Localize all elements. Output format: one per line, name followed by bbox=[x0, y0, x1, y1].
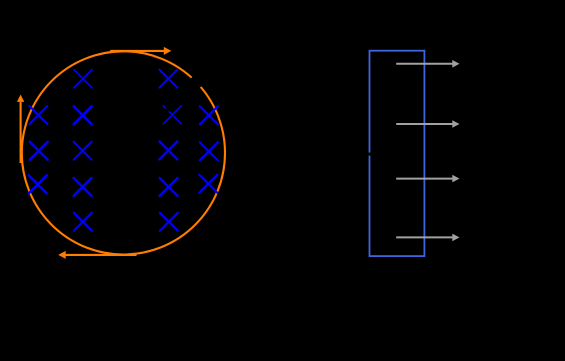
X col2 row3 bbox=[74, 142, 92, 160]
X col1 row4 bbox=[29, 175, 47, 193]
X col2 row5 bbox=[74, 213, 92, 231]
X col1 row2 bbox=[29, 106, 47, 124]
X col3 row4 bbox=[160, 178, 178, 196]
gray arrow 4 bbox=[396, 234, 459, 242]
X col3 row1 bbox=[159, 70, 177, 88]
plate / region rectangle (blue) bbox=[370, 51, 425, 256]
X col2 row4 bbox=[74, 178, 92, 196]
X col3 row5 bbox=[160, 213, 178, 231]
X col1 row3 bbox=[30, 142, 48, 160]
field arrows (gray), pointing right bbox=[396, 60, 459, 241]
black break on X col3 row2 upper-left arm bbox=[166, 108, 169, 111]
bottom tangent arrow (pointing left) bbox=[58, 251, 136, 259]
B-field X marks (into page), blue bbox=[29, 70, 218, 231]
gray arrow 3 bbox=[396, 175, 459, 183]
X col2 row2 bbox=[74, 106, 92, 124]
X col4 row3 bbox=[200, 142, 218, 160]
X col3 row3 bbox=[159, 141, 177, 159]
X col2 row1 bbox=[74, 70, 92, 88]
gap in loop (black label crossing arc, upper right) bbox=[190, 75, 203, 88]
X col4 row2 bbox=[200, 106, 218, 124]
X col3 row2 (thin, offset right, arm broken by black label) bbox=[163, 106, 181, 124]
X col4 row4 bbox=[199, 175, 217, 193]
black notch on rectangle left edge bbox=[368, 153, 372, 156]
circular field region (orange loop) bbox=[22, 51, 225, 254]
left tangent arrow (pointing up) bbox=[17, 95, 24, 164]
gray arrow 1 bbox=[396, 60, 459, 68]
top tangent arrow (clockwise, pointing right) bbox=[110, 47, 171, 55]
gray arrow 2 bbox=[396, 120, 459, 128]
